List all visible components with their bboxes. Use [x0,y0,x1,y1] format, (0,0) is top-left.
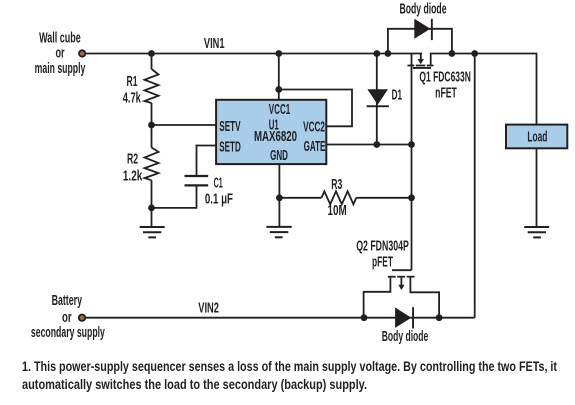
svg-text:D1: D1 [392,88,402,104]
wire C1 bottom to R2 ground node [152,186,197,208]
svg-text:Body diode: Body diode [382,329,429,345]
svg-text:main supply: main supply [35,61,86,77]
diode D1 [367,89,389,107]
label R3 value [328,177,347,219]
node body diode right on VIN2 [436,314,443,321]
wire VIN1 rail right (Q1 source to Load corner) [431,54,537,125]
wire load branch vertical [474,54,476,318]
svg-text:or: or [55,45,64,61]
body diode bottom (Q2) [395,307,414,328]
svg-text:1. This power-supply sequencer: 1. This power-supply sequencer senses a … [22,359,557,374]
svg-text:10M: 10M [328,203,347,219]
node VCC1 on VIN1 [275,50,282,57]
resistor R3 [322,191,357,204]
wire R1/R2 branch vertical top [151,54,153,70]
label Wall cube / or / main supply [35,30,86,77]
resistor R2 [145,148,159,181]
svg-text:1.2k: 1.2k [123,168,143,184]
svg-text:Battery: Battery [52,293,82,309]
wire load to ground [536,148,538,226]
transistor Q2 channel dashes [388,276,415,290]
node R1 top on VIN1 [148,50,155,57]
label Q2 FDN304P pFET [356,238,409,270]
wire VCC2 loop [279,90,352,127]
node GND/R3 [276,194,283,201]
resistor R1 [145,69,159,103]
IC U1 MAX6820 body [216,100,326,164]
node gate net on GATE wire [408,141,415,148]
node body diode right on source [449,50,456,57]
svg-text:VIN2: VIN2 [198,301,219,317]
wire D1 branch [376,54,378,145]
svg-text:VCC1: VCC1 [269,102,291,118]
transistor Q1 substrate arrow [420,54,422,60]
svg-text:4.7k: 4.7k [123,91,142,107]
svg-text:VCC2: VCC2 [303,119,325,135]
wire VCC1 [278,54,280,100]
ground (U1 GND) [266,227,291,237]
node C1/R2 ground [148,205,155,212]
wire SETD [197,146,217,176]
svg-text:Q2 FDN304P: Q2 FDN304P [356,238,409,254]
node SETV divider [148,122,155,129]
svg-text:GND: GND [270,148,288,164]
node body diode left on VIN1 [385,50,392,57]
transistor Q1 channel dashes [408,54,434,69]
svg-text:VIN1: VIN1 [204,36,225,52]
svg-text:SETD: SETD [219,139,241,155]
label R2 value [123,151,143,184]
transistor Q1 gate bar [413,67,431,69]
svg-text:Load: Load [527,129,547,146]
svg-text:automatically switches the loa: automatically switches the load to the s… [22,377,367,392]
wire Q2 source stub to body diode right leg [410,278,439,318]
node R3/gate net [408,194,415,201]
svg-text:R1: R1 [127,74,138,90]
wire GND node to R3 [279,197,321,199]
body diode top (Q1) [414,19,433,40]
node junction dots [148,50,478,321]
svg-text:R3: R3 [331,177,342,193]
label Battery / or / secondary supply [31,293,105,341]
wire Q2 drain stub to body diode left leg [364,278,391,318]
svg-text:nFET: nFET [435,85,457,101]
wire VIN2 rail [84,317,475,319]
svg-text:C1: C1 [214,176,223,192]
wire Q2 gate bar lead [392,269,412,271]
node load branch on rail [471,50,478,57]
svg-text:SETV: SETV [219,119,240,135]
wire GATE pin [326,144,411,146]
svg-text:Body diode: Body diode [400,2,447,18]
wire body diode top loop [388,29,452,54]
label R1 value [123,74,142,107]
svg-text:R2: R2 [127,151,138,167]
transistor Q2 substrate arrow [401,278,403,286]
wire gate net vertical (Q1 gate to Q2 gate) [411,54,413,271]
svg-text:Wall cube: Wall cube [39,30,81,46]
terminal main supply [78,49,86,57]
svg-text:pFET: pFET [372,255,393,271]
label C1 value [205,176,233,208]
node D1 on VIN1 [373,50,380,57]
label Q1 FDC633N nFET [419,69,471,101]
svg-text:GATE: GATE [304,139,326,155]
ground (R2/C1 node) [140,227,165,237]
node D1 on GATE wire [373,141,380,148]
ground (load) [524,227,549,237]
wire GND pin [278,164,280,226]
wire between R1 and R2 [151,103,153,148]
svg-text:MAX6820: MAX6820 [254,129,297,145]
svg-text:0.1 μF: 0.1 μF [205,192,233,208]
capacitor C1 [185,176,209,185]
svg-text:Q1 FDC633N: Q1 FDC633N [419,69,471,85]
pin labels U1 [219,102,325,164]
node VCC2 loop on VCC1 wire [275,86,282,93]
svg-text:secondary supply: secondary supply [31,325,105,341]
node body diode left on VIN2 [361,314,368,321]
wire VIN1 rail left (terminal to Q1 drain) [84,53,422,55]
svg-text:or: or [62,310,72,326]
wire R2 bottom to ground [151,180,153,226]
wire R3 to gate net [356,197,411,199]
terminal secondary supply [78,314,86,322]
load box [506,125,567,149]
wire SETV [152,124,217,126]
